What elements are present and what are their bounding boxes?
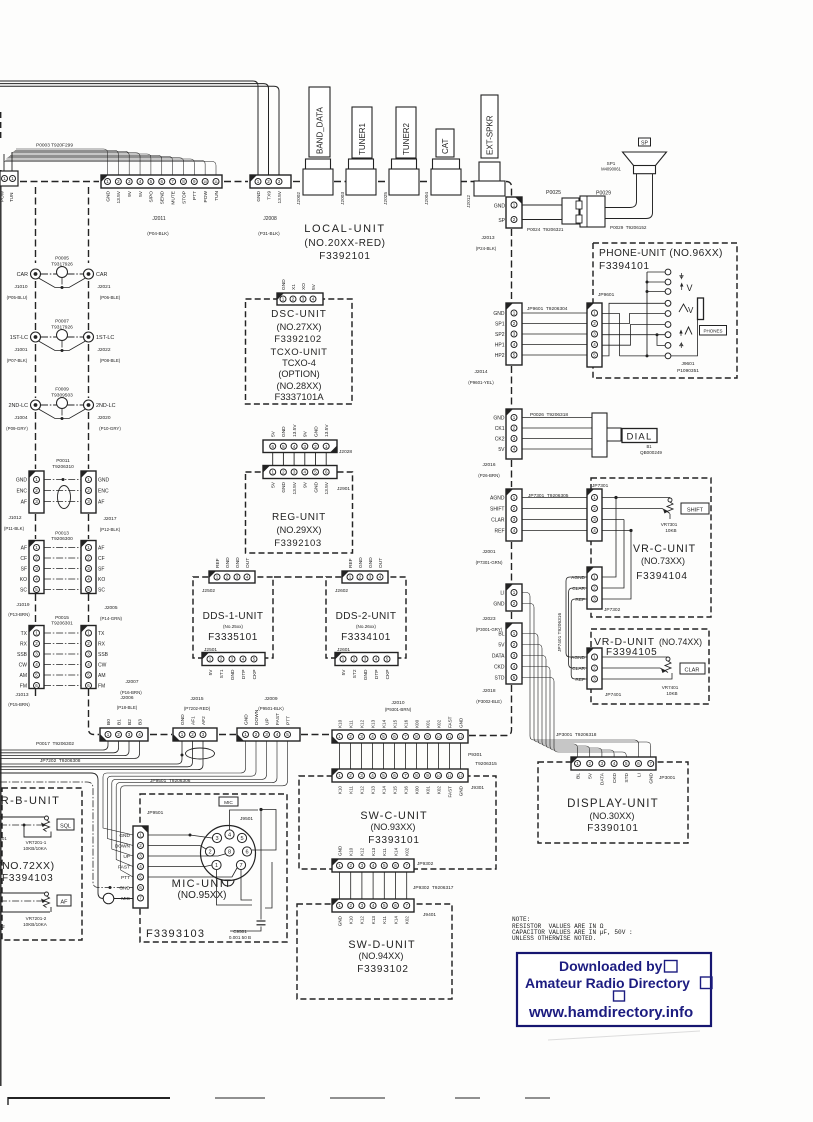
- svg-text:C9501: C9501: [233, 929, 247, 934]
- svg-text:B1: B1: [116, 719, 122, 725]
- svg-text:CKD: CKD: [494, 665, 505, 671]
- svg-text:(P08-BLE): (P08-BLE): [100, 358, 121, 363]
- svg-text:J2502: J2502: [202, 588, 215, 594]
- svg-text:13.5V: 13.5V: [324, 481, 330, 494]
- svg-text:MUTE: MUTE: [170, 191, 176, 205]
- svg-text:www.hamdirectory.info: www.hamdirectory.info: [528, 1004, 693, 1021]
- svg-text:CLAR: CLAR: [572, 586, 585, 592]
- svg-text:J2025: J2025: [383, 192, 389, 205]
- svg-text:(P12-BLK): (P12-BLK): [100, 527, 121, 532]
- svg-text:(P24-BLK): (P24-BLK): [476, 246, 497, 251]
- svg-text:10KB: 10KB: [665, 528, 676, 533]
- svg-text:11: 11: [214, 180, 218, 184]
- svg-text:(P9501-BLK): (P9501-BLK): [258, 706, 284, 711]
- svg-text:F3394105: F3394105: [606, 647, 657, 658]
- svg-text:11: 11: [448, 735, 452, 739]
- svg-text:JP9601: JP9601: [598, 292, 615, 298]
- svg-text:K15: K15: [392, 719, 397, 728]
- svg-text:GND: GND: [256, 190, 262, 201]
- svg-text:2ND-LC: 2ND-LC: [9, 403, 29, 409]
- svg-text:F0009: F0009: [55, 387, 69, 393]
- svg-text:DATA: DATA: [600, 772, 606, 785]
- svg-text:GND: GND: [494, 204, 506, 210]
- svg-text:GND: GND: [337, 845, 342, 856]
- svg-text:AF: AF: [61, 900, 69, 906]
- svg-text:J1013: J1013: [15, 692, 28, 698]
- svg-text:(P16-BRN): (P16-BRN): [120, 690, 142, 695]
- svg-text:OUT: OUT: [378, 558, 384, 568]
- svg-text:POW: POW: [0, 190, 5, 202]
- svg-text:FAST: FAST: [118, 865, 130, 871]
- svg-text:REF: REF: [495, 529, 505, 535]
- svg-text:HP1: HP1: [495, 343, 505, 349]
- svg-text:DOWN: DOWN: [115, 844, 131, 850]
- svg-text:DTP: DTP: [374, 670, 380, 680]
- svg-text:PTT: PTT: [285, 716, 291, 725]
- svg-text:GND: GND: [358, 557, 364, 568]
- svg-text:AM: AM: [98, 673, 106, 679]
- svg-text:10KB/10KA: 10KB/10KA: [23, 922, 48, 927]
- svg-text:REG-UNIT: REG-UNIT: [272, 512, 326, 523]
- svg-text:ENC: ENC: [16, 489, 27, 495]
- svg-text:J2023: J2023: [482, 616, 495, 622]
- svg-text:F3394104: F3394104: [636, 571, 687, 582]
- svg-text:(No.25xx): (No.25xx): [223, 624, 243, 629]
- svg-text:13.5V: 13.5V: [292, 424, 298, 437]
- svg-text:K16: K16: [403, 786, 408, 795]
- svg-text:TUN: TUN: [9, 193, 14, 202]
- svg-text:GND: GND: [313, 426, 319, 437]
- svg-text:13.5V: 13.5V: [277, 190, 283, 203]
- svg-text:KO: KO: [98, 577, 105, 583]
- svg-text:JP7302: JP7302: [604, 607, 621, 613]
- svg-text:TCXO-UNIT: TCXO-UNIT: [270, 347, 327, 358]
- svg-text:M4090061: M4090061: [601, 167, 621, 172]
- svg-text:(P7202-RED): (P7202-RED): [184, 706, 211, 711]
- svg-text:J2005: J2005: [104, 605, 117, 611]
- svg-text:J2004: J2004: [424, 192, 430, 205]
- svg-text:GND: GND: [105, 190, 111, 201]
- svg-text:T9317926: T9317926: [51, 262, 73, 268]
- svg-text:S/PO: S/PO: [149, 191, 155, 203]
- svg-text:K00: K00: [414, 786, 419, 795]
- svg-text:F3337101A: F3337101A: [274, 392, 324, 403]
- svg-text:BL: BL: [575, 773, 581, 779]
- svg-text:F3335101: F3335101: [208, 632, 258, 643]
- svg-text:11: 11: [448, 774, 452, 778]
- svg-text:UP: UP: [123, 854, 130, 860]
- svg-text:6: 6: [245, 850, 248, 856]
- svg-text:TCXO-4: TCXO-4: [282, 358, 316, 368]
- svg-text:F3334101: F3334101: [341, 632, 391, 643]
- svg-text:AF: AF: [98, 500, 104, 506]
- svg-text:MIC: MIC: [121, 896, 130, 902]
- svg-text:J2001: J2001: [482, 549, 495, 555]
- svg-text:P0025: P0025: [546, 190, 561, 196]
- svg-text:10: 10: [437, 774, 441, 778]
- svg-text:(NO.27XX): (NO.27XX): [277, 322, 322, 332]
- svg-text:JP3001 T9206318: JP3001 T9206318: [556, 732, 597, 738]
- svg-text:5V: 5V: [341, 669, 347, 676]
- svg-text:J2007: J2007: [125, 679, 138, 685]
- svg-text:PHONES: PHONES: [703, 329, 722, 334]
- svg-text:CLAR: CLAR: [572, 666, 585, 672]
- svg-text:Downloaded by: Downloaded by: [559, 958, 663, 974]
- svg-text:GND: GND: [493, 416, 505, 422]
- svg-text:12: 12: [459, 735, 463, 739]
- svg-text:TUNER2: TUNER2: [402, 122, 411, 155]
- svg-text:FAST: FAST: [447, 786, 452, 798]
- svg-text:JP3001: JP3001: [659, 775, 676, 781]
- svg-text:GND: GND: [363, 669, 369, 680]
- svg-text:DISPLAY-UNIT: DISPLAY-UNIT: [567, 798, 659, 810]
- svg-text:AGND: AGND: [571, 575, 585, 581]
- svg-text:DTP: DTP: [241, 670, 247, 680]
- svg-text:F3394103: F3394103: [2, 873, 53, 884]
- svg-text:P0024 T9206321: P0024 T9206321: [527, 227, 564, 232]
- svg-text:J2020: J2020: [97, 415, 110, 421]
- svg-text:(NO.74XX): (NO.74XX): [659, 637, 702, 647]
- svg-text:LOCAL-UNIT: LOCAL-UNIT: [304, 223, 385, 235]
- svg-text:POW: POW: [203, 191, 209, 203]
- svg-text:GND: GND: [493, 602, 505, 608]
- svg-text:K16: K16: [403, 719, 408, 728]
- svg-text:(P05-BLU): (P05-BLU): [7, 295, 28, 300]
- svg-text:2: 2: [208, 850, 211, 856]
- svg-text:SP: SP: [641, 140, 648, 146]
- svg-text:AF2: AF2: [201, 716, 207, 725]
- svg-text:ST2: ST2: [352, 669, 358, 678]
- svg-text:VR7201-2: VR7201-2: [26, 916, 47, 921]
- svg-text:T9206315: T9206315: [475, 761, 497, 767]
- svg-text:J9401: J9401: [423, 912, 436, 918]
- svg-text:J2013: J2013: [481, 235, 494, 241]
- svg-text:5V: 5V: [271, 481, 277, 488]
- svg-text:GND: GND: [368, 557, 374, 568]
- svg-text:K10: K10: [337, 719, 342, 728]
- svg-text:3: 3: [215, 836, 218, 842]
- svg-text:K14: K14: [381, 719, 386, 728]
- svg-text:(P9301-BRN): (P9301-BRN): [385, 707, 412, 712]
- svg-text:(NO.28XX): (NO.28XX): [277, 381, 322, 391]
- svg-text:8: 8: [228, 850, 231, 856]
- svg-text:RX: RX: [20, 642, 28, 648]
- svg-text:PTT: PTT: [121, 875, 130, 881]
- svg-text:9V: 9V: [303, 481, 309, 488]
- svg-text:DATA: DATA: [492, 654, 505, 660]
- svg-text:2ND-LC: 2ND-LC: [96, 403, 116, 409]
- svg-text:VR7301: VR7301: [661, 522, 678, 527]
- svg-text:J2006: J2006: [120, 695, 133, 701]
- svg-text:12: 12: [459, 774, 463, 778]
- svg-text:K12: K12: [360, 847, 365, 856]
- svg-text:AF: AF: [21, 500, 27, 506]
- svg-text:STD: STD: [624, 772, 630, 782]
- svg-text:10: 10: [437, 735, 441, 739]
- svg-text:SF: SF: [21, 567, 27, 573]
- svg-text:1ST-LC: 1ST-LC: [96, 335, 114, 341]
- svg-text:(P9601-YEL): (P9601-YEL): [468, 380, 494, 385]
- svg-text:SHIFT: SHIFT: [687, 508, 704, 514]
- svg-text:AGND: AGND: [571, 655, 585, 661]
- svg-text:J2022: J2022: [97, 347, 110, 353]
- svg-text:J1001: J1001: [14, 347, 27, 353]
- svg-text:TUNER1: TUNER1: [358, 122, 367, 155]
- svg-text:FAST: FAST: [275, 713, 281, 725]
- svg-text:F3392101: F3392101: [319, 251, 370, 262]
- svg-text:J9301: J9301: [471, 785, 484, 791]
- svg-text:5V: 5V: [588, 772, 594, 779]
- svg-text:(NO.20XX-RED): (NO.20XX-RED): [304, 238, 385, 249]
- svg-text:GND: GND: [281, 481, 287, 492]
- svg-text:B3: B3: [137, 719, 143, 725]
- svg-text:K02: K02: [436, 786, 441, 795]
- svg-text:(NO.30XX): (NO.30XX): [590, 811, 635, 821]
- svg-text:P0029 T9206152: P0029 T9206152: [610, 225, 647, 230]
- svg-text:GND: GND: [119, 886, 130, 892]
- svg-text:J9601: J9601: [681, 361, 694, 367]
- svg-text:CAR: CAR: [96, 272, 107, 278]
- svg-text:SSB: SSB: [98, 652, 109, 658]
- svg-text:AF1: AF1: [190, 716, 196, 725]
- svg-text:REF: REF: [348, 558, 354, 568]
- svg-text:SEND: SEND: [160, 190, 166, 204]
- svg-text:XO: XO: [301, 283, 307, 290]
- svg-text:STOP: STOP: [181, 191, 187, 204]
- svg-text:K13: K13: [370, 786, 375, 795]
- svg-text:STD: STD: [495, 676, 505, 682]
- svg-text:5V: 5V: [311, 283, 317, 290]
- svg-text:T9317926: T9317926: [51, 325, 73, 331]
- svg-text:SP: SP: [498, 218, 505, 224]
- svg-text:NOTE:: NOTE:: [512, 916, 530, 923]
- svg-text:AF: AF: [21, 546, 27, 552]
- svg-text:GND: GND: [649, 772, 655, 783]
- svg-text:FAST: FAST: [447, 716, 452, 728]
- svg-text:K10: K10: [349, 916, 354, 925]
- svg-text:LI: LI: [636, 773, 642, 777]
- svg-text:(P06-BLE): (P06-BLE): [100, 295, 121, 300]
- svg-text:J2017: J2017: [103, 516, 116, 522]
- svg-text:K11: K11: [382, 916, 387, 924]
- svg-text:J2002: J2002: [296, 192, 302, 205]
- svg-text:SP1: SP1: [495, 322, 505, 328]
- svg-text:CAT: CAT: [441, 138, 450, 154]
- svg-text:(P3002-BLE): (P3002-BLE): [476, 699, 502, 704]
- svg-text:02: 02: [0, 924, 5, 929]
- svg-text:K13: K13: [371, 916, 376, 925]
- svg-text:GND: GND: [458, 785, 463, 796]
- svg-text:JP9302 T9206317: JP9302 T9206317: [413, 885, 454, 891]
- svg-text:JP9501: JP9501: [147, 810, 164, 816]
- svg-text:JP9601 T9206304: JP9601 T9206304: [527, 306, 568, 312]
- svg-text:(P26-BRN): (P26-BRN): [478, 473, 500, 478]
- svg-text:TX9: TX9: [266, 191, 272, 200]
- svg-text:J1010: J1010: [14, 284, 27, 290]
- svg-text:DSC-UNIT: DSC-UNIT: [271, 309, 327, 320]
- svg-text:CLAR: CLAR: [491, 518, 505, 524]
- svg-text:(P15-BRN): (P15-BRN): [8, 702, 30, 707]
- svg-text:(P31-BLK): (P31-BLK): [258, 231, 280, 236]
- svg-text:J1019: J1019: [16, 602, 29, 608]
- svg-text:13.5V: 13.5V: [116, 190, 122, 203]
- svg-text:F3393101: F3393101: [368, 835, 419, 846]
- svg-text:K13: K13: [371, 847, 376, 856]
- svg-text:(NO.29XX): (NO.29XX): [277, 525, 322, 535]
- svg-text:Amateur Radio Directory: Amateur Radio Directory: [525, 975, 690, 991]
- svg-text:JP7401: JP7401: [605, 692, 622, 698]
- svg-text:J2012: J2012: [466, 195, 472, 208]
- svg-text:SP1: SP1: [607, 161, 616, 166]
- svg-text:SF: SF: [98, 567, 104, 573]
- svg-text:UNLESS OTHERWISE NOTED.: UNLESS OTHERWISE NOTED.: [512, 935, 596, 942]
- svg-text:HP2: HP2: [495, 353, 505, 359]
- svg-text:ST1: ST1: [219, 669, 225, 678]
- svg-text:PTT: PTT: [192, 191, 198, 200]
- svg-text:K10: K10: [349, 847, 354, 856]
- svg-text:GND: GND: [98, 478, 110, 484]
- svg-text:(NO.73XX): (NO.73XX): [641, 556, 685, 566]
- svg-text:P0005: P0005: [55, 256, 69, 262]
- svg-text:LI: LI: [500, 591, 504, 597]
- svg-text:GND: GND: [493, 311, 505, 317]
- svg-text:K11: K11: [348, 786, 353, 794]
- svg-text:K15: K15: [392, 786, 397, 795]
- svg-text:J2602: J2602: [335, 588, 348, 594]
- svg-text:J2016: J2016: [482, 462, 495, 468]
- svg-text:FM: FM: [20, 684, 27, 690]
- svg-text:GND: GND: [16, 478, 28, 484]
- svg-text:P0007: P0007: [55, 319, 69, 325]
- svg-text:(P09-GRY): (P09-GRY): [6, 426, 28, 431]
- svg-text:K13: K13: [370, 719, 375, 728]
- svg-text:P0017 T9206302: P0017 T9206302: [36, 741, 74, 747]
- svg-text:GND: GND: [230, 669, 236, 680]
- svg-text:P0003 T920F299: P0003 T920F299: [36, 143, 73, 149]
- svg-text:AGND: AGND: [490, 496, 505, 502]
- svg-text:J2021: J2021: [97, 284, 110, 290]
- svg-text:REF: REF: [575, 597, 585, 603]
- svg-text:JP7401 T9206316: JP7401 T9206316: [557, 613, 563, 652]
- svg-text:(P11-BLK): (P11-BLK): [4, 526, 25, 531]
- svg-text:5V: 5V: [271, 430, 277, 437]
- svg-text:JP7202 T9206308: JP7202 T9206308: [40, 758, 81, 764]
- svg-text:13.5V: 13.5V: [324, 424, 330, 437]
- svg-text:F3393102: F3393102: [357, 964, 408, 975]
- svg-text:V: V: [688, 306, 694, 315]
- svg-text:K11: K11: [382, 848, 387, 856]
- svg-text:F3394101: F3394101: [599, 261, 650, 272]
- svg-text:7: 7: [239, 863, 242, 869]
- svg-text:5: 5: [240, 836, 243, 842]
- svg-text:GND: GND: [243, 714, 249, 725]
- svg-text:T9206310: T9206310: [52, 464, 74, 470]
- svg-text:K14: K14: [393, 847, 398, 856]
- svg-text:KO: KO: [20, 577, 27, 583]
- svg-text:B1: B1: [646, 444, 652, 449]
- svg-text:BL: BL: [498, 632, 504, 638]
- svg-text:K12: K12: [360, 916, 365, 925]
- svg-text:SSB: SSB: [17, 652, 28, 658]
- svg-text:K14: K14: [381, 786, 386, 795]
- svg-text:F3390101: F3390101: [587, 823, 638, 834]
- svg-text:K10: K10: [337, 786, 342, 795]
- svg-text:J2014: J2014: [474, 369, 487, 375]
- svg-text:JP7301 T9206305: JP7301 T9206305: [528, 493, 569, 499]
- svg-text:X1: X1: [291, 284, 297, 290]
- svg-text:CLAR: CLAR: [685, 668, 700, 674]
- svg-text:5V: 5V: [208, 669, 214, 676]
- svg-text:GND: GND: [119, 833, 130, 839]
- svg-text:V: V: [687, 283, 693, 293]
- svg-text:SC: SC: [20, 588, 27, 594]
- svg-text:FM: FM: [98, 684, 105, 690]
- svg-text:DDS-2-UNIT: DDS-2-UNIT: [336, 611, 397, 622]
- svg-text:5V: 5V: [498, 447, 505, 453]
- svg-text:1: 1: [215, 863, 218, 869]
- svg-text:GND: GND: [180, 714, 186, 725]
- svg-text:GND: GND: [458, 717, 463, 728]
- svg-text:K14: K14: [393, 916, 398, 925]
- svg-text:01: 01: [2, 836, 7, 841]
- svg-text:PHONE-UNIT (NO.96XX): PHONE-UNIT (NO.96XX): [599, 248, 723, 259]
- svg-text:J2009: J2009: [264, 696, 277, 702]
- svg-text:SW-C-UNIT: SW-C-UNIT: [360, 810, 427, 822]
- svg-text:CK1: CK1: [495, 426, 505, 432]
- svg-text:(NO.93XX): (NO.93XX): [371, 822, 416, 832]
- svg-text:(P18-BLE): (P18-BLE): [117, 705, 138, 710]
- svg-text:AM: AM: [20, 673, 28, 679]
- svg-text:T9309503: T9309503: [51, 393, 73, 399]
- svg-text:DDS-1-UNIT: DDS-1-UNIT: [203, 611, 264, 622]
- svg-text:CK2: CK2: [495, 437, 505, 443]
- svg-text:(P04-BLK): (P04-BLK): [147, 231, 169, 236]
- svg-text:SHIFT: SHIFT: [490, 507, 504, 513]
- svg-text:10: 10: [203, 180, 207, 184]
- svg-text:J1012: J1012: [8, 515, 21, 521]
- svg-text:13.5V: 13.5V: [292, 481, 298, 494]
- svg-text:0.001 50 B: 0.001 50 B: [229, 935, 251, 940]
- svg-text:SC: SC: [98, 588, 105, 594]
- svg-text:VR-C-UNIT: VR-C-UNIT: [633, 543, 696, 555]
- svg-text:F3393103: F3393103: [146, 928, 205, 940]
- svg-text:9V: 9V: [303, 430, 309, 437]
- svg-text:K02: K02: [405, 847, 410, 856]
- svg-text:CKP: CKP: [252, 670, 258, 680]
- svg-text:K12: K12: [359, 786, 364, 795]
- svg-text:B2: B2: [127, 719, 133, 725]
- svg-text:F3392103: F3392103: [274, 538, 322, 549]
- svg-text:(P14-GRN): (P14-GRN): [100, 616, 122, 621]
- svg-text:4: 4: [228, 833, 231, 839]
- svg-text:CW: CW: [98, 663, 107, 669]
- svg-text:CAR: CAR: [17, 272, 28, 278]
- svg-text:P0011: P0011: [56, 458, 70, 464]
- svg-text:K11: K11: [348, 720, 353, 728]
- svg-text:GND: GND: [281, 426, 287, 437]
- svg-text:K01: K01: [425, 719, 430, 728]
- svg-text:OUT: OUT: [245, 558, 251, 568]
- svg-text:EXT-SPKR: EXT-SPKR: [485, 115, 494, 155]
- svg-text:CKD: CKD: [612, 772, 618, 783]
- svg-text:J2015: J2015: [190, 696, 203, 702]
- svg-text:J2011: J2011: [152, 216, 165, 222]
- svg-text:J9501: J9501: [240, 816, 253, 822]
- svg-text:J2008: J2008: [263, 216, 277, 222]
- svg-text:(NO.72XX): (NO.72XX): [0, 860, 55, 872]
- svg-text:10KB: 10KB: [666, 691, 677, 696]
- svg-text:(NO.94XX): (NO.94XX): [359, 951, 404, 961]
